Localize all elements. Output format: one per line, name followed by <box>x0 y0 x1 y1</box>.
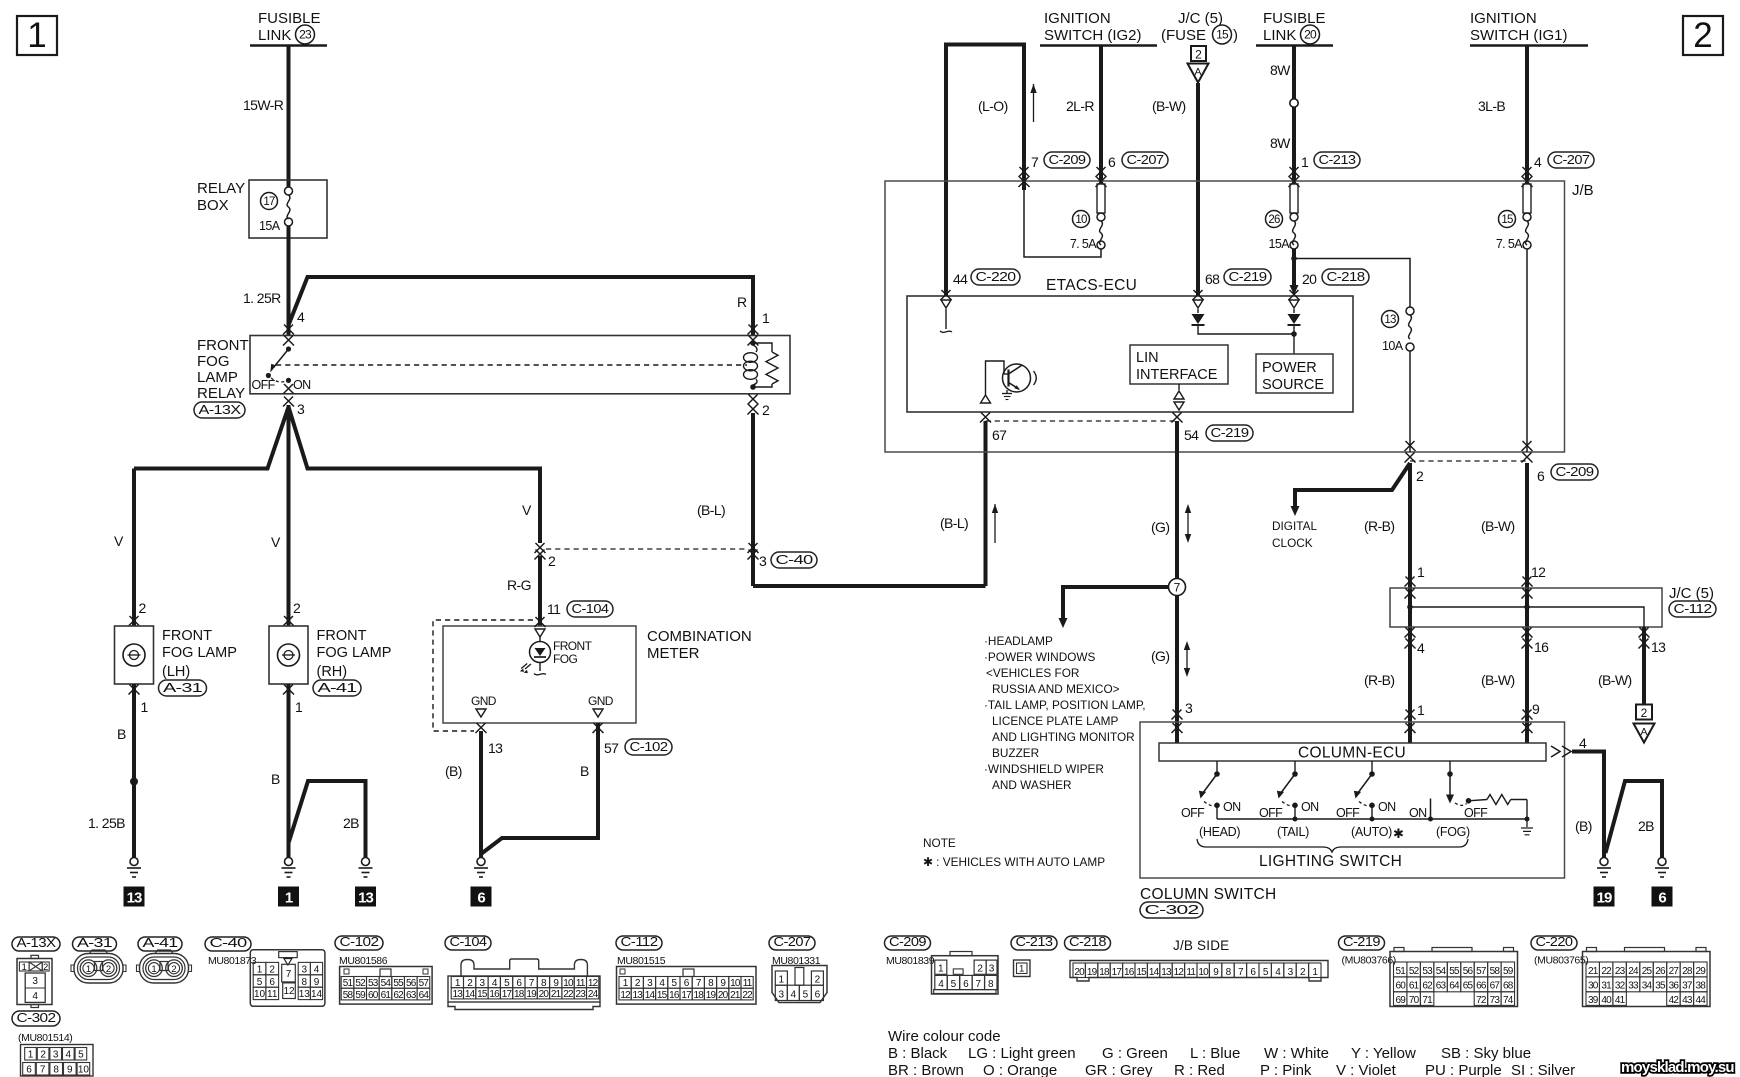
svg-text:31: 31 <box>1601 981 1612 992</box>
svg-text:19: 19 <box>1087 967 1098 978</box>
svg-text:C-209: C-209 <box>1049 152 1086 167</box>
svg-text:2: 2 <box>1641 706 1648 720</box>
svg-text:1: 1 <box>27 16 46 55</box>
svg-text:J/C (5): J/C (5) <box>1178 10 1223 27</box>
svg-text:4: 4 <box>791 990 797 1001</box>
svg-text:1. 25B: 1. 25B <box>88 815 125 831</box>
svg-text:14: 14 <box>1149 967 1160 978</box>
svg-text:20: 20 <box>1302 271 1317 287</box>
svg-text:OFF: OFF <box>1181 806 1205 820</box>
svg-text:1: 1 <box>28 1050 34 1061</box>
svg-text:BR : Brown: BR : Brown <box>888 1062 964 1077</box>
svg-text:C-219: C-219 <box>1229 269 1267 284</box>
svg-text:8W: 8W <box>1270 135 1291 151</box>
svg-text:(R-B): (R-B) <box>1364 672 1394 688</box>
svg-text:C-209: C-209 <box>889 934 926 949</box>
svg-text:15: 15 <box>1136 967 1147 978</box>
svg-text:V: V <box>271 534 281 550</box>
svg-text:J/B SIDE: J/B SIDE <box>1173 938 1229 953</box>
svg-text:2: 2 <box>1195 48 1202 62</box>
svg-text:1: 1 <box>779 975 785 986</box>
svg-text:7: 7 <box>1031 154 1039 170</box>
svg-text:ON: ON <box>293 378 311 392</box>
svg-text:V: V <box>114 533 124 549</box>
svg-text:1: 1 <box>1417 702 1425 718</box>
svg-text:11: 11 <box>267 989 278 1000</box>
svg-text:2L-R: 2L-R <box>1066 98 1094 114</box>
svg-text:OFF: OFF <box>1259 806 1283 820</box>
svg-text:9: 9 <box>67 1065 73 1076</box>
svg-text:71: 71 <box>1422 995 1433 1006</box>
svg-text:17: 17 <box>681 990 692 1001</box>
svg-text:AND WASHER: AND WASHER <box>992 778 1072 792</box>
svg-text:2: 2 <box>1416 468 1424 484</box>
svg-text:COLUMN-ECU: COLUMN-ECU <box>1298 745 1406 762</box>
svg-text:10A: 10A <box>1382 339 1404 353</box>
svg-text:4: 4 <box>32 991 38 1002</box>
svg-text:20: 20 <box>1074 967 1085 978</box>
svg-text:13: 13 <box>358 890 373 907</box>
svg-text:OFF: OFF <box>1336 806 1360 820</box>
svg-text:7: 7 <box>286 969 292 980</box>
svg-text:15: 15 <box>1216 28 1229 42</box>
svg-text:10: 10 <box>78 1065 90 1076</box>
svg-text:C-112: C-112 <box>1674 601 1712 616</box>
svg-text:18: 18 <box>514 989 525 1000</box>
svg-text:13: 13 <box>299 989 311 1000</box>
svg-text:R : Red: R : Red <box>1174 1062 1225 1077</box>
svg-text:10: 10 <box>1075 214 1087 226</box>
svg-text:69: 69 <box>1395 995 1406 1006</box>
svg-text:C-220: C-220 <box>976 269 1016 284</box>
svg-text:13: 13 <box>1384 314 1396 326</box>
svg-text:6: 6 <box>477 890 485 907</box>
svg-text:V : Violet: V : Violet <box>1336 1062 1397 1077</box>
svg-text:54: 54 <box>381 978 392 989</box>
svg-text:(L-O): (L-O) <box>978 98 1008 114</box>
svg-text:1: 1 <box>938 964 944 975</box>
svg-text:IGNITION: IGNITION <box>1044 10 1111 27</box>
svg-text:14: 14 <box>465 989 476 1000</box>
svg-text:3: 3 <box>297 401 305 417</box>
svg-text:51: 51 <box>1395 966 1406 977</box>
svg-text:19: 19 <box>706 990 717 1001</box>
svg-text:16: 16 <box>1124 967 1135 978</box>
svg-text:·POWER WINDOWS: ·POWER WINDOWS <box>984 650 1096 664</box>
svg-text:A-13X: A-13X <box>199 402 242 417</box>
svg-text:4: 4 <box>66 1050 72 1061</box>
svg-text:G : Green: G : Green <box>1102 1045 1168 1062</box>
svg-text:): ) <box>1233 27 1238 44</box>
svg-text:1: 1 <box>151 964 156 975</box>
svg-text:22: 22 <box>742 990 753 1001</box>
svg-text:MU801586: MU801586 <box>339 955 388 967</box>
svg-text:4: 4 <box>314 964 320 975</box>
svg-text:LG : Light green: LG : Light green <box>968 1045 1076 1062</box>
svg-text:MU801839: MU801839 <box>886 955 935 967</box>
svg-text:1: 1 <box>1019 964 1024 975</box>
svg-text:FOG: FOG <box>197 353 230 370</box>
svg-text:6: 6 <box>963 979 969 990</box>
svg-text:34: 34 <box>1642 981 1653 992</box>
svg-text:68: 68 <box>1503 981 1514 992</box>
svg-text:21: 21 <box>730 990 741 1001</box>
svg-text:1: 1 <box>257 964 263 975</box>
svg-text:C-112: C-112 <box>621 934 658 949</box>
svg-text:20: 20 <box>539 989 550 1000</box>
svg-text:R-G: R-G <box>507 577 531 593</box>
svg-text:MU801515: MU801515 <box>617 955 666 967</box>
svg-text:72: 72 <box>1476 995 1487 1006</box>
svg-text:LAMP: LAMP <box>197 369 238 386</box>
svg-text:B : Black: B : Black <box>888 1045 948 1062</box>
svg-text:·WINDSHIELD WIPER: ·WINDSHIELD WIPER <box>984 762 1104 776</box>
svg-text:A-31: A-31 <box>77 935 112 950</box>
svg-text:13: 13 <box>633 990 644 1001</box>
svg-text:(LH): (LH) <box>162 664 190 680</box>
svg-text:LIGHTING SWITCH: LIGHTING SWITCH <box>1259 853 1402 870</box>
svg-text:7: 7 <box>40 1065 46 1076</box>
svg-text:70: 70 <box>1409 995 1420 1006</box>
svg-text:63: 63 <box>1436 981 1447 992</box>
svg-text:73: 73 <box>1490 995 1501 1006</box>
svg-text:19: 19 <box>526 989 537 1000</box>
svg-text:56: 56 <box>406 978 417 989</box>
svg-text:(B-W): (B-W) <box>1152 98 1186 114</box>
svg-text:7. 5A: 7. 5A <box>1496 237 1523 251</box>
svg-text:5: 5 <box>78 1050 84 1061</box>
svg-text:3L-B: 3L-B <box>1478 98 1505 114</box>
svg-text:51: 51 <box>343 978 354 989</box>
svg-text:1: 1 <box>1301 154 1309 170</box>
svg-text:(B): (B) <box>1575 818 1592 834</box>
svg-text:FUSIBLE: FUSIBLE <box>258 10 321 27</box>
svg-text:2: 2 <box>548 553 556 569</box>
svg-text:(MU801514): (MU801514) <box>18 1032 72 1044</box>
svg-text:FOG LAMP: FOG LAMP <box>317 645 392 661</box>
svg-text:64: 64 <box>1449 981 1460 992</box>
svg-text:C-104: C-104 <box>450 934 487 949</box>
svg-text:A: A <box>1194 66 1201 78</box>
svg-text:B: B <box>271 771 280 787</box>
svg-text:12: 12 <box>620 990 631 1001</box>
svg-text:62: 62 <box>1422 981 1433 992</box>
svg-text:13: 13 <box>488 740 503 756</box>
svg-text:4: 4 <box>1417 640 1425 656</box>
svg-text:(G): (G) <box>1151 519 1169 535</box>
svg-text:57: 57 <box>604 740 619 756</box>
svg-text:5: 5 <box>257 977 263 988</box>
svg-text:BOX: BOX <box>197 197 229 214</box>
svg-text:ON: ON <box>1301 800 1319 814</box>
svg-text:(R-B): (R-B) <box>1364 518 1394 534</box>
svg-text:57: 57 <box>419 978 430 989</box>
svg-text:17: 17 <box>502 989 513 1000</box>
svg-text:25: 25 <box>1642 966 1653 977</box>
svg-text:16: 16 <box>489 989 500 1000</box>
svg-text:FRONT: FRONT <box>317 628 367 644</box>
svg-text:5: 5 <box>951 979 957 990</box>
svg-text:(B-W): (B-W) <box>1481 672 1515 688</box>
svg-text:C-302: C-302 <box>1145 902 1199 917</box>
svg-text:1. 25R: 1. 25R <box>243 290 281 306</box>
svg-text:44: 44 <box>953 271 968 287</box>
svg-text:3: 3 <box>32 976 38 987</box>
svg-text:(TAIL): (TAIL) <box>1277 825 1309 839</box>
svg-text:V: V <box>522 502 532 518</box>
svg-text:1: 1 <box>22 962 27 973</box>
svg-text:12: 12 <box>283 986 295 997</box>
svg-text:59: 59 <box>1503 966 1514 977</box>
svg-text:7: 7 <box>976 979 982 990</box>
svg-text:CLOCK: CLOCK <box>1272 536 1313 550</box>
svg-text:(FUSE: (FUSE <box>1161 27 1206 44</box>
svg-text:ETACS-ECU: ETACS-ECU <box>1046 277 1137 294</box>
svg-text:LIN: LIN <box>1136 350 1159 366</box>
svg-text:ON: ON <box>1409 806 1427 820</box>
svg-text:1: 1 <box>86 964 91 975</box>
svg-text:2: 2 <box>40 1050 46 1061</box>
svg-text:23: 23 <box>1615 966 1626 977</box>
svg-text:3: 3 <box>53 1050 59 1061</box>
svg-text:moysklad.moy.su: moysklad.moy.su <box>1621 1059 1734 1076</box>
svg-text:C-220: C-220 <box>1536 934 1573 949</box>
svg-text:55: 55 <box>393 978 404 989</box>
svg-text:7: 7 <box>1174 581 1181 595</box>
svg-text:GR : Grey: GR : Grey <box>1085 1062 1153 1077</box>
svg-text:2: 2 <box>171 964 176 975</box>
svg-text:4: 4 <box>297 309 305 325</box>
svg-text:ON: ON <box>1378 800 1396 814</box>
svg-text:30: 30 <box>1588 981 1599 992</box>
svg-text:B: B <box>117 726 126 742</box>
svg-text:Y : Yellow: Y : Yellow <box>1351 1045 1416 1062</box>
svg-text:LINK: LINK <box>1263 27 1296 44</box>
svg-text:52: 52 <box>1409 966 1420 977</box>
svg-text:21: 21 <box>551 989 562 1000</box>
svg-text:15: 15 <box>1501 214 1513 226</box>
svg-text:8W: 8W <box>1270 62 1291 78</box>
svg-text:COMBINATION: COMBINATION <box>647 628 752 645</box>
svg-text:8: 8 <box>302 977 308 988</box>
svg-text:58: 58 <box>1490 966 1501 977</box>
svg-text:(HEAD): (HEAD) <box>1199 825 1240 839</box>
svg-text:54: 54 <box>1436 966 1447 977</box>
svg-text:1: 1 <box>295 699 303 715</box>
svg-text:15: 15 <box>657 990 668 1001</box>
svg-text:RELAY: RELAY <box>197 180 245 197</box>
svg-text:2: 2 <box>43 962 48 973</box>
svg-text:LINK: LINK <box>258 27 291 44</box>
svg-text:57: 57 <box>1476 966 1487 977</box>
svg-text:3: 3 <box>779 990 785 1001</box>
svg-text:65: 65 <box>1463 981 1474 992</box>
svg-text:14: 14 <box>311 989 323 1000</box>
svg-text:A-41: A-41 <box>318 680 357 695</box>
svg-text:40: 40 <box>1601 995 1612 1006</box>
svg-text:1: 1 <box>1417 564 1425 580</box>
svg-text:A: A <box>1640 726 1647 738</box>
svg-text:11: 11 <box>743 978 753 989</box>
svg-text:7. 5A: 7. 5A <box>1070 237 1097 251</box>
svg-text:62: 62 <box>393 990 404 1001</box>
svg-text:8: 8 <box>988 979 994 990</box>
svg-text:5: 5 <box>803 990 809 1001</box>
svg-text:29: 29 <box>1696 966 1707 977</box>
svg-text:2B: 2B <box>343 815 359 831</box>
svg-text:33: 33 <box>1628 981 1639 992</box>
svg-text:17: 17 <box>1112 967 1123 978</box>
svg-text:52: 52 <box>355 978 366 989</box>
svg-text:SI : Silver: SI : Silver <box>1511 1062 1575 1077</box>
svg-text:INTERFACE: INTERFACE <box>1136 367 1218 383</box>
svg-text:P : Pink: P : Pink <box>1260 1062 1312 1077</box>
svg-text:2: 2 <box>1693 16 1712 55</box>
svg-text:(RH): (RH) <box>317 664 348 680</box>
svg-text:PU : Purple: PU : Purple <box>1425 1062 1502 1077</box>
svg-text:21: 21 <box>1588 966 1599 977</box>
svg-text:1: 1 <box>285 890 293 907</box>
svg-text:3: 3 <box>989 964 995 975</box>
svg-text:14: 14 <box>645 990 656 1001</box>
svg-text:18: 18 <box>694 990 705 1001</box>
svg-text:15A: 15A <box>1269 237 1291 251</box>
svg-text:9: 9 <box>1532 701 1540 717</box>
svg-text:SWITCH (IG1): SWITCH (IG1) <box>1470 27 1568 44</box>
svg-text:13: 13 <box>127 890 142 907</box>
svg-text:FUSIBLE: FUSIBLE <box>1263 10 1326 27</box>
svg-text:6: 6 <box>815 990 821 1001</box>
svg-text:16: 16 <box>669 990 680 1001</box>
svg-text:SB : Sky blue: SB : Sky blue <box>1441 1045 1531 1062</box>
svg-text:FRONT: FRONT <box>197 337 249 354</box>
svg-text:<VEHICLES FOR: <VEHICLES FOR <box>986 666 1079 680</box>
svg-text:A-13X: A-13X <box>17 935 57 950</box>
svg-text:24: 24 <box>588 989 599 1000</box>
svg-text:(FOG): (FOG) <box>1436 825 1470 839</box>
svg-text:ON: ON <box>1223 800 1241 814</box>
svg-text:2: 2 <box>977 964 983 975</box>
svg-text:15: 15 <box>477 989 488 1000</box>
svg-text:67: 67 <box>992 427 1007 443</box>
svg-text:6: 6 <box>26 1065 32 1076</box>
svg-text:C-219: C-219 <box>1343 934 1380 949</box>
svg-text:GND: GND <box>588 694 614 708</box>
svg-text:66: 66 <box>1476 981 1487 992</box>
svg-text:22: 22 <box>563 989 574 1000</box>
svg-text:37: 37 <box>1682 981 1693 992</box>
svg-text:AND LIGHTING MONITOR: AND LIGHTING MONITOR <box>992 730 1135 744</box>
svg-text:64: 64 <box>419 990 430 1001</box>
svg-text:A-41: A-41 <box>143 935 178 950</box>
svg-text:6: 6 <box>1537 468 1545 484</box>
svg-text:J/B: J/B <box>1572 182 1594 199</box>
svg-text:2: 2 <box>139 600 147 616</box>
svg-text:SOURCE: SOURCE <box>1262 377 1324 393</box>
svg-text:41: 41 <box>1615 995 1626 1006</box>
svg-text:C-207: C-207 <box>1127 152 1164 167</box>
svg-text:27: 27 <box>1669 966 1680 977</box>
svg-text:✱ : VEHICLES WITH AUTO LAMP: ✱ : VEHICLES WITH AUTO LAMP <box>923 855 1105 869</box>
svg-text:42: 42 <box>1669 995 1680 1006</box>
svg-text:(B-W): (B-W) <box>1598 672 1632 688</box>
svg-text:10: 10 <box>730 978 741 989</box>
svg-text:67: 67 <box>1490 981 1501 992</box>
svg-text:3: 3 <box>759 553 767 569</box>
svg-text:63: 63 <box>406 990 417 1001</box>
svg-text:32: 32 <box>1615 981 1626 992</box>
svg-text:39: 39 <box>1588 995 1599 1006</box>
svg-text:C-218: C-218 <box>1069 934 1106 949</box>
svg-text:13: 13 <box>1161 967 1172 978</box>
svg-text:9: 9 <box>314 977 320 988</box>
svg-text:C-302: C-302 <box>17 1010 56 1025</box>
svg-text:COLUMN SWITCH: COLUMN SWITCH <box>1140 886 1277 903</box>
svg-text:C-209: C-209 <box>1556 464 1594 479</box>
svg-text:4: 4 <box>1534 154 1542 170</box>
svg-text:(MU803765): (MU803765) <box>1534 955 1588 967</box>
svg-text:2: 2 <box>762 402 770 418</box>
svg-text:DIGITAL: DIGITAL <box>1272 519 1317 533</box>
svg-text:23: 23 <box>299 28 312 42</box>
svg-text:6: 6 <box>1108 154 1116 170</box>
svg-text:10: 10 <box>254 989 266 1000</box>
svg-text:2: 2 <box>815 975 821 986</box>
svg-text:NOTE: NOTE <box>923 836 956 850</box>
svg-text:20: 20 <box>718 990 729 1001</box>
svg-text:11: 11 <box>1186 967 1196 978</box>
svg-text:C-207: C-207 <box>774 934 811 949</box>
svg-text:43: 43 <box>1682 995 1693 1006</box>
svg-text:1: 1 <box>141 699 149 715</box>
svg-text:·TAIL LAMP, POSITION LAMP,: ·TAIL LAMP, POSITION LAMP, <box>984 698 1146 712</box>
svg-text:(B-W): (B-W) <box>1481 518 1515 534</box>
svg-text:R: R <box>737 294 747 310</box>
svg-text:2: 2 <box>293 600 301 616</box>
svg-text:17: 17 <box>263 196 275 208</box>
svg-text:J/C (5): J/C (5) <box>1669 585 1714 602</box>
svg-text:15W-R: 15W-R <box>243 97 284 113</box>
svg-text:53: 53 <box>368 978 379 989</box>
svg-text:10: 10 <box>1198 967 1209 978</box>
svg-text:(B-L): (B-L) <box>697 502 725 518</box>
svg-text:RELAY: RELAY <box>197 385 245 402</box>
svg-text:59: 59 <box>355 990 366 1001</box>
svg-text:2: 2 <box>269 964 275 975</box>
svg-text:IGNITION: IGNITION <box>1470 10 1537 27</box>
svg-text:58: 58 <box>343 990 354 1001</box>
svg-text:4: 4 <box>1579 735 1587 751</box>
svg-text:20: 20 <box>1304 28 1317 42</box>
svg-text:61: 61 <box>1409 981 1420 992</box>
svg-text:C-218: C-218 <box>1327 269 1365 284</box>
svg-text:OFF: OFF <box>1464 806 1488 820</box>
svg-text:OFF: OFF <box>252 378 276 392</box>
svg-text:B: B <box>580 763 589 779</box>
svg-text:C-213: C-213 <box>1016 934 1053 949</box>
svg-text:28: 28 <box>1682 966 1693 977</box>
svg-text:Wire colour code: Wire colour code <box>888 1028 1001 1045</box>
svg-text:6: 6 <box>269 977 275 988</box>
svg-text:23: 23 <box>576 989 587 1000</box>
svg-text:SWITCH (IG2): SWITCH (IG2) <box>1044 27 1142 44</box>
svg-text:C-102: C-102 <box>340 934 379 949</box>
svg-text:3: 3 <box>1185 700 1193 716</box>
svg-text:2: 2 <box>106 964 111 975</box>
svg-text:(G): (G) <box>1151 648 1169 664</box>
svg-text:O : Orange: O : Orange <box>983 1062 1057 1077</box>
svg-text:13: 13 <box>453 989 464 1000</box>
